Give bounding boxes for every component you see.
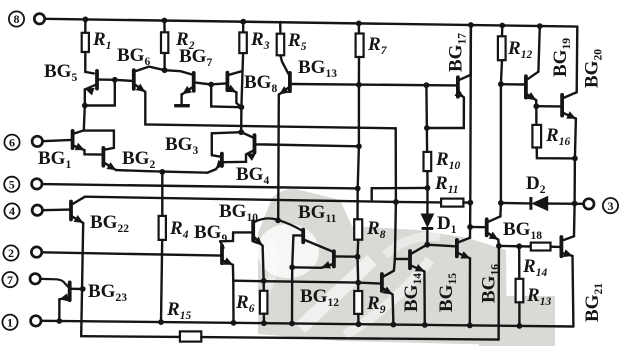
wire: BG18 emitter down to lower rail [497, 240, 500, 340]
transistor BG3 [220, 154, 224, 166]
transistor BG20 [560, 95, 564, 116]
wire: R12 column to D2 node and BG18 collector [499, 84, 502, 216]
wire: BG16 collector column from top rail [469, 25, 472, 238]
junction dots on ground rail [56, 318, 62, 324]
wire: top rail to R5 [279, 22, 282, 34]
wire: R13 to ground rail [518, 302, 520, 326]
transistor BG8 [225, 73, 229, 91]
wire: lower rail right [201, 337, 498, 340]
wire: R10 to D1 [426, 171, 429, 214]
resistor R2 [161, 32, 168, 53]
junction: BG11/BG12 emitter node [289, 264, 295, 270]
resistor R15 (horizontal) [180, 331, 201, 341]
terminal 6 [4, 135, 19, 150]
transistor BG19 [524, 76, 528, 97]
terminal 7 [2, 272, 17, 287]
svg-text:7: 7 [7, 273, 13, 287]
wire: long wire BG9 emitter to BG14 base [233, 281, 380, 284]
terminal 1 pad [31, 316, 41, 326]
wire: BG23 emitter down to terminal 1 rail [58, 299, 61, 321]
junction: BG20 base node [533, 103, 539, 109]
wire: BG19 base [501, 83, 524, 86]
wire: BG5 emitter loop [85, 80, 115, 106]
wire: BG4 collector box to BG3 base [212, 132, 241, 155]
wire: BG20 base [536, 105, 560, 108]
junction: R10 / terminal-5 node [425, 185, 431, 191]
junction: R7 column / BG13-BG17 wire [356, 82, 362, 88]
wire: R12 to BG19 base node [501, 60, 502, 84]
wire: D1 node to BG16 base [427, 245, 455, 247]
junction: column / R11 [467, 200, 473, 206]
svg-text:2: 2 [8, 246, 14, 260]
terminal 2 pad [31, 247, 41, 257]
wire: BG11 node down to ground rail [291, 267, 294, 323]
label BG20 [582, 49, 605, 88]
transistor BG4 [253, 135, 257, 152]
transistor BG6 [132, 70, 136, 89]
resistor R13 [516, 279, 524, 303]
wire: ground rail (terminal 1 bus) [41, 321, 573, 327]
wire: D2 anode wire [501, 202, 530, 205]
junction: R3 column / base-node wire / BG8 emitter [239, 104, 245, 110]
wire: emitter wire up to BG3 [207, 169, 216, 172]
junction: R12 column / D2 wire [498, 200, 504, 206]
wire: BG4 base to bias column [266, 145, 359, 147]
transistor BG15 [408, 251, 412, 268]
terminal 5 pad [32, 179, 42, 189]
wire: BG20 emitter column down to BG21 collector [574, 119, 576, 237]
wire: R13 column [518, 246, 520, 278]
wire: BG12 emitter to BG11 base node [292, 266, 321, 269]
diode D2 [529, 197, 532, 210]
wire: base node down to R3 column [211, 85, 241, 108]
resistor R11 (horizontal) [441, 199, 463, 207]
terminal 4 pad [32, 205, 42, 215]
label BG17 [446, 33, 469, 72]
resistor R1 [82, 33, 89, 52]
svg-text:8: 8 [14, 12, 20, 26]
resistor R16 [532, 125, 541, 148]
label BG14 [401, 273, 424, 312]
wire: BG15 collector to D1 node [426, 243, 427, 246]
transistor BG22 [69, 202, 73, 220]
wire: BG17 emitter return to R10 top [427, 98, 464, 129]
wire: BG16 emitter to ground rail [469, 258, 472, 325]
junction: terminal 3 node / BG20 emitter column [572, 201, 578, 207]
wire: BG9 collector to BG10 base [220, 232, 252, 241]
svg-text:6: 6 [9, 135, 15, 149]
junction: BG5 collector / loop [112, 77, 118, 83]
wire: top rail to R7 [358, 23, 361, 33]
wire: BG19 collector to top rail [538, 26, 539, 72]
wire: BG22 collector rail to R11 [85, 197, 441, 203]
svg-text:3: 3 [608, 199, 614, 213]
wire: R11 to BG16 collector column [463, 201, 470, 203]
wire: BG9 emitter column to ground rail [232, 265, 235, 323]
wire: BG18 base [470, 226, 485, 229]
resistor R9 [354, 291, 362, 314]
transistor BG12 [332, 251, 336, 266]
diode D1 [422, 214, 434, 226]
wire: top supply rail from terminal 8 to BG20 collector corner [45, 19, 578, 27]
svg-text:1: 1 [7, 315, 13, 329]
wire: BG13 base to BG17 base [292, 84, 456, 85]
junction: R6 top / long bias wire [261, 278, 267, 284]
wire: R1 to BG5 base [85, 52, 94, 73]
wire: BG13 emitter column down to BG10/BG11 hat [277, 94, 280, 220]
wire: BG6 emitter long wire [145, 92, 396, 202]
wire: BG19 emitter to BG20 base node [535, 100, 537, 106]
transistor BG17 [456, 77, 460, 96]
junction: BG19 base node [498, 81, 504, 87]
label BG21 [582, 283, 605, 322]
resistor R8 [354, 219, 362, 239]
wire: BG15 base tee [395, 258, 409, 261]
wire: BG14 collector column / BG15 base [394, 202, 396, 271]
junction: R4 tap on emitter wire [159, 169, 165, 175]
wire: top rail to R1 [84, 19, 86, 32]
junction: column / BG18 base [467, 224, 473, 230]
wire: lower rail left [81, 335, 180, 338]
transistor BG7 [192, 73, 196, 91]
wire: terminal 4 to BG22 base [43, 208, 70, 211]
wire: top rail to R12 [501, 26, 504, 37]
junction: D1 cathode node [424, 242, 430, 248]
wire: terminal 5 to bias column [42, 184, 357, 188]
wire: R9 to ground rail [357, 314, 360, 324]
wire: BG21 emitter to ground rail corner [571, 256, 574, 327]
junction: BG5 emitter node [82, 103, 88, 109]
wire: terminal 7 to BG23 base [41, 279, 69, 287]
wire: emitter wire to R4 [161, 172, 163, 216]
wire: BG1/BG2 collector tie [84, 131, 114, 150]
resistor R5 [277, 34, 285, 56]
wire: BG15 emitter to ground rail [423, 271, 426, 325]
junction dots on top supply rail [83, 17, 89, 23]
junction: R2 / roof [162, 67, 168, 73]
junction: BG18 emitter / R14 wire [496, 243, 502, 249]
junction: BG6 emitter column joins BG22 collector rail [393, 199, 399, 205]
wire: top rail to R3 [242, 22, 244, 33]
wire: R3 column down to BG4 collector node [241, 53, 243, 132]
junction: bias column / long wire [355, 280, 361, 286]
svg-text:5: 5 [9, 178, 15, 192]
transistor BG14 [380, 274, 384, 291]
junction: BG23 collector / BG22 emitter column [80, 286, 86, 292]
transistor BG10 [251, 221, 255, 241]
terminal 6 pad [32, 136, 42, 146]
wire: R6 to ground rail [263, 314, 265, 324]
junction: R3 column / BG4 collector [238, 129, 244, 135]
terminal 3 pad [584, 199, 594, 209]
label BG16 [479, 264, 502, 303]
junction: BG13 wire / R10 column [424, 82, 430, 88]
resistor R4 [159, 216, 166, 240]
wire: R2 to BG6/BG7 collectors (roof) [163, 53, 165, 70]
transistor BG23 [68, 282, 72, 300]
resistor R3 [239, 32, 247, 53]
transistor BG9 [220, 246, 224, 264]
label BG19 [550, 38, 573, 77]
wire: R14 to BG21 base [551, 245, 560, 248]
wire: BG2 emitter to BG3 emitter [116, 170, 207, 173]
wire: R5 to BG13 collector [280, 55, 288, 74]
junction: bias column / BG12 base [355, 254, 361, 260]
wire: BG10 emitter to R6 [263, 246, 264, 291]
junction: R16 / BG20 emitter column [572, 156, 578, 162]
wire: BG1 collector up to BG5 emitter node [84, 106, 85, 131]
resistor R10 [424, 152, 432, 171]
wire: R10 node to BG22 collector rail [372, 188, 428, 201]
wire: BG20 base node to R16 [535, 106, 538, 125]
terminal 5 [4, 177, 19, 192]
wire: top rail to R2 [163, 21, 166, 33]
resistor R7 [356, 34, 364, 58]
terminal 7 pad [30, 274, 40, 284]
wire: R16 to BG20 emitter column [537, 148, 575, 159]
junction: R10 column / BG17 emitter return [424, 125, 430, 131]
wire: BG14 emitter to ground rail [391, 294, 394, 324]
transistor BG13 [288, 73, 292, 91]
terminal 3 [603, 198, 618, 213]
terminal 1 [2, 315, 17, 330]
junction: bias column / BG4 base [356, 143, 362, 149]
label BG15 [436, 273, 459, 312]
wire: BG10/BG11 collector hat [254, 218, 302, 230]
terminal 8 pad [34, 14, 44, 24]
wire: terminal 2 to BG9 base [42, 252, 221, 255]
ground [174, 104, 190, 107]
transistor BG21 [560, 237, 564, 256]
junction: bias column / terminal 5 wire [355, 186, 361, 192]
wire: R4 to ground rail [161, 240, 162, 322]
wire: terminal 6 to BG1 base [43, 140, 71, 141]
resistor R12 [498, 36, 506, 60]
junction: hat / BG13 emitter column [275, 217, 281, 223]
wire: bias column R7 to R8 [358, 85, 359, 220]
terminal 4 [4, 203, 19, 218]
transistor BG11 [301, 230, 305, 243]
transistor BG18 [485, 219, 489, 235]
transistor BG5 [95, 71, 99, 89]
wire: top rail corner down to BG20 collector [576, 27, 579, 93]
wire: BG7 emitter to ground [180, 94, 182, 103]
transistor BG1 [71, 131, 75, 148]
wire: R8 to R9 [356, 240, 359, 291]
wire: R10 column upper [425, 85, 428, 152]
resistor R14 (horizontal) [531, 243, 551, 251]
junction: BG7/BG8 base node [208, 82, 214, 88]
terminal 8 (pin 8 label) [9, 11, 24, 26]
wire: BG22 emitter column [81, 223, 83, 336]
wire: D2 to terminal 3 [548, 202, 584, 205]
svg-text:4: 4 [9, 204, 15, 218]
transistor BG2 [102, 148, 106, 166]
junction: R13 top [516, 243, 522, 249]
wire: R14 node wire [499, 245, 531, 248]
resistor R6 [260, 291, 268, 314]
transistor BG16 [455, 240, 459, 257]
wire: top rail to BG17 collector [469, 25, 472, 75]
wire: R7 column to bias chain [358, 57, 361, 85]
terminal 2 [3, 245, 18, 260]
